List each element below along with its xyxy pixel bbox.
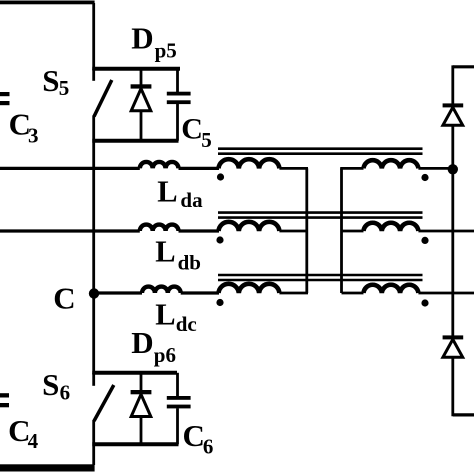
svg-text:L: L: [155, 234, 175, 268]
svg-text:5: 5: [201, 128, 212, 152]
wire: phase line b left segment: [0, 229, 140, 232]
wire: right bus top corner to edge: [453, 65, 474, 68]
inductor Lda: [140, 162, 179, 168]
transformer T3 secondary winding: [364, 285, 419, 293]
transformer T1 primary winding: [219, 159, 280, 168]
transformer T1 secondary winding: [364, 160, 419, 168]
wire: secondary star vertical: [340, 168, 343, 293]
label C (midpoint node): [53, 281, 75, 316]
label Ldb: [155, 234, 201, 274]
label C6: [183, 418, 214, 458]
capacitor C4 (plates at left edge): [0, 393, 9, 407]
svg-text:L: L: [157, 174, 177, 208]
T2 secondary polarity dot: [421, 237, 428, 244]
wire: phase-leg vertical from top bus to S5: [92, 3, 95, 70]
wire: secondary star vertical to T2 secondary: [342, 230, 364, 233]
wire: secondary star vertical to T1 secondary: [340, 167, 363, 170]
svg-text:5: 5: [59, 76, 70, 100]
svg-text:D: D: [131, 21, 153, 56]
T3 secondary polarity dot: [421, 299, 428, 306]
wire: phase line c to transformer T3: [181, 291, 219, 294]
label S6: [42, 367, 70, 404]
label Lda: [157, 174, 203, 212]
capacitor C5: [167, 69, 191, 141]
wire: T3 primary to primary star vertical: [279, 292, 308, 295]
svg-text:S: S: [42, 63, 59, 98]
wire: phase line b to transformer T2: [179, 229, 220, 232]
wire: secondary star vertical to T3 secondary: [342, 292, 364, 295]
wire: T2 secondary across diode bus to right edge: [418, 230, 474, 233]
switch S6 blade: [94, 385, 114, 421]
diode D1 (top right): [443, 103, 464, 125]
wire: T2 primary to primary star vertical: [279, 230, 306, 233]
svg-text:D: D: [131, 325, 153, 360]
diode Dp5: [131, 69, 152, 141]
wire: right diode bus vertical: [451, 65, 454, 416]
svg-text:3: 3: [28, 124, 39, 148]
svg-text:da: da: [180, 188, 203, 212]
svg-text:S: S: [42, 367, 59, 402]
wire: phase line a left segment: [0, 167, 140, 170]
wire: right bus bottom corner to edge: [453, 413, 474, 416]
wire: phase-leg vertical from S5 blade through midpoint to S6: [92, 116, 95, 375]
S6 cell top rail: [92, 371, 177, 375]
inductor Ldb: [140, 225, 179, 231]
wire: primary star vertical: [305, 168, 308, 293]
wire: T1 secondary to right diode bus node: [418, 167, 452, 170]
label C3: [9, 106, 39, 147]
wire: T1 primary to primary star vertical: [279, 167, 308, 170]
T1 primary polarity dot: [217, 173, 224, 180]
svg-text:dc: dc: [176, 312, 197, 336]
switch S5 blade: [94, 80, 112, 117]
transformer T2 primary winding: [219, 222, 280, 231]
label Dp6: [131, 325, 176, 367]
switch S5 top stub: [92, 69, 95, 81]
T2 primary polarity dot: [216, 236, 223, 243]
T1 secondary polarity dot: [421, 174, 428, 181]
S6 cell bottom rail: [92, 442, 178, 446]
top DC bus bar: [0, 1, 95, 5]
svg-text:C: C: [183, 418, 205, 453]
wire: phase line a to transformer T1: [179, 167, 220, 170]
inductor Ldc: [142, 287, 181, 293]
wire: phase line c from node C: [94, 291, 142, 294]
transformer T2 secondary winding: [364, 223, 419, 231]
svg-text:p6: p6: [154, 343, 176, 367]
transformer T2 core: [218, 213, 423, 218]
svg-text:C: C: [53, 281, 75, 316]
label Dp5: [131, 21, 177, 63]
capacitor C3 (plates at left edge): [0, 92, 10, 105]
label C4: [8, 413, 38, 453]
transformer T3 core: [218, 275, 423, 280]
label C5: [181, 113, 211, 153]
svg-text:C: C: [181, 113, 203, 146]
S5 cell top rail: [92, 67, 180, 71]
label Ldc: [155, 297, 196, 336]
svg-text:4: 4: [28, 429, 39, 453]
label S5: [42, 63, 69, 100]
right bus junction dot (phase a): [448, 164, 458, 174]
diode D2 (bottom right): [443, 335, 464, 357]
wire: T3 secondary across diode bus to right edge: [418, 292, 474, 295]
svg-text:p5: p5: [155, 39, 177, 63]
transformer T1 core: [218, 149, 423, 154]
S5 cell bottom rail: [92, 139, 178, 143]
svg-text:db: db: [178, 251, 201, 275]
switch S6 top stub: [92, 373, 95, 386]
T3 primary polarity dot: [216, 299, 223, 306]
wire: phase-leg vertical from S6 blade to bottom bus: [92, 420, 95, 465]
transformer T3 primary winding: [219, 284, 280, 293]
capacitor C6: [167, 373, 191, 445]
svg-text:6: 6: [203, 434, 214, 458]
diode Dp6: [131, 373, 152, 445]
svg-text:L: L: [155, 297, 175, 331]
node C junction dot: [89, 288, 99, 298]
svg-text:6: 6: [60, 381, 71, 405]
bottom DC bus bar: [0, 464, 95, 471]
